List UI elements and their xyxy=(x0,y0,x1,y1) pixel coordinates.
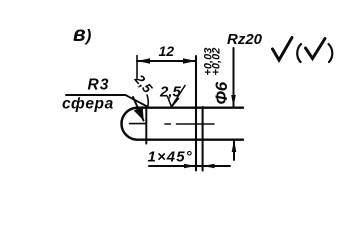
1x45 right arrowhead pointing left xyxy=(203,164,215,168)
part outline + extension: bottom edge xyxy=(138,138,244,140)
fi6 dimension lower arrow xyxy=(233,140,235,160)
1x45 dimension line xyxy=(149,165,230,167)
svg-text:в): в) xyxy=(73,23,92,46)
first 2,5 leader tick xyxy=(147,95,148,107)
svg-text:R3: R3 xyxy=(88,77,110,94)
svg-text:12: 12 xyxy=(159,43,175,59)
1x45 left arrowhead pointing right xyxy=(184,164,196,168)
fi6 +0,03/+0,02 rotated dimension text xyxy=(203,48,232,105)
svg-text:Rz20: Rz20 xyxy=(227,31,263,48)
part outline + extension: top edge xyxy=(138,106,244,108)
part outline: sphere arc (left rounded end) xyxy=(122,108,138,140)
chamfer left line / 12-dim right extension xyxy=(195,56,197,171)
parenthesis ) xyxy=(329,44,333,62)
parenthesis ( xyxy=(297,44,301,62)
12 dim right arrowhead xyxy=(183,58,196,63)
fi6 dimension upper arrow xyxy=(233,48,235,107)
svg-text:+0,02: +0,02 xyxy=(210,48,222,76)
R3 leader arrowhead xyxy=(134,106,144,121)
chamfer right line xyxy=(202,107,204,171)
svg-text:2,5: 2,5 xyxy=(131,71,156,96)
R3 leader to sphere xyxy=(133,97,144,121)
svg-text:Ф6: Ф6 xyxy=(212,81,231,104)
sphere transition vertical line xyxy=(145,108,147,144)
surface finish check mark 2 (in parens) xyxy=(306,39,326,59)
12 dim left extension line xyxy=(136,56,138,79)
12 dim left arrowhead xyxy=(137,58,150,63)
svg-text:1×45°: 1×45° xyxy=(148,149,193,166)
centerline (dash-dot axis) xyxy=(130,123,215,125)
second 2,5 open arrowhead xyxy=(168,97,179,107)
surface finish check mark 1 xyxy=(273,38,293,61)
second 2,5 leader line xyxy=(172,86,186,107)
12 dimension line xyxy=(137,60,196,62)
svg-text:сфера: сфера xyxy=(62,96,114,113)
R3 leader shelf and diagonal xyxy=(66,95,149,107)
